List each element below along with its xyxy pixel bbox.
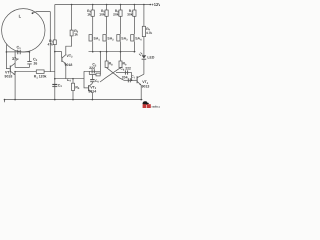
node R5 top xyxy=(72,78,74,80)
wire R10 to LED xyxy=(143,37,145,56)
wire coil left end down to base node xyxy=(6,45,9,69)
wire parallel resistor row xyxy=(89,71,100,74)
watermark red text xyxy=(143,104,165,108)
+12V top rail xyxy=(55,4,151,6)
capacitor C3 electrolytic xyxy=(52,84,57,87)
LED diode xyxy=(139,53,146,60)
wire C6 row xyxy=(116,72,132,74)
svg-text:9014: 9014 xyxy=(88,89,96,93)
svg-text:C7: C7 xyxy=(131,75,135,80)
switch column 3: wire, resistor, switch SA3 xyxy=(117,5,122,52)
svg-text:9018: 9018 xyxy=(65,63,73,67)
capacitor C2 xyxy=(27,62,31,64)
node R1 left xyxy=(14,71,16,73)
svg-text:20k: 20k xyxy=(113,12,119,16)
wire C7 row xyxy=(124,79,137,81)
node junction coil-C1 xyxy=(6,51,8,53)
svg-text:222: 222 xyxy=(89,66,95,70)
svg-text:radio.com: radio.com xyxy=(152,106,160,109)
transistor VT4 xyxy=(137,74,144,85)
resistor R5 xyxy=(72,79,75,100)
node coil tap dot xyxy=(32,12,34,14)
switch column 4: wire, resistor, switch SA4 xyxy=(131,5,136,52)
svg-text:26: 26 xyxy=(34,61,38,65)
wire down to VT3 base xyxy=(84,71,88,88)
cross coupling wire right-to-left xyxy=(100,68,121,82)
svg-text:1k: 1k xyxy=(74,33,78,37)
resistor R9 column xyxy=(119,52,122,68)
watermark logo blob xyxy=(143,101,149,105)
transistor VT3 xyxy=(89,83,93,93)
resistor small horizontal xyxy=(96,73,100,76)
transistor VT1 xyxy=(10,63,15,75)
cross coupling wire left-to-right xyxy=(107,68,124,81)
node C6/C7 xyxy=(131,80,133,82)
svg-text:C4: C4 xyxy=(67,78,72,83)
wire VT2 collector to R3 xyxy=(66,36,72,55)
svg-text:9013: 9013 xyxy=(142,84,150,88)
capacitor C6 xyxy=(125,70,127,74)
svg-text:1k: 1k xyxy=(87,12,91,16)
wire vertical from coil tap down xyxy=(49,12,51,72)
svg-text:30k: 30k xyxy=(127,12,133,16)
svg-text:204: 204 xyxy=(122,76,128,80)
wire R3 top to +12V rail xyxy=(71,5,73,31)
resistor R8 column xyxy=(105,52,108,68)
wire coil top tap to vertical xyxy=(33,12,51,14)
svg-text:+12V: +12V xyxy=(151,2,160,7)
svg-text:R5: R5 xyxy=(75,85,80,90)
wire tank top to C1 xyxy=(6,51,29,53)
capacitor C6 electrolytic in VT3 collector xyxy=(90,75,94,84)
svg-text:C1: C1 xyxy=(17,45,22,50)
node junction bias xyxy=(54,51,56,53)
wire C2 bottom to VT1 collector node xyxy=(15,66,29,68)
bus wire below switches xyxy=(89,51,136,53)
wire to VT2 base xyxy=(55,52,62,58)
svg-text:SA2: SA2 xyxy=(107,37,114,42)
wire VT4 collector up to LED xyxy=(143,60,145,75)
svg-text:10k: 10k xyxy=(99,12,105,16)
capacitor C1 xyxy=(18,50,20,55)
svg-text:VT2: VT2 xyxy=(67,54,74,59)
node C3 top xyxy=(54,78,56,80)
wire coil tap to VT1 collector xyxy=(14,51,16,68)
wire VT1 emitter down to ground rail xyxy=(14,72,16,100)
svg-text:SA1: SA1 xyxy=(94,37,101,42)
wire C6 down to base row xyxy=(131,73,133,81)
capacitor C5 xyxy=(92,69,94,73)
switch column 1: wire, resistor R4, switch SA1 xyxy=(89,5,94,52)
resistor R3 xyxy=(70,30,73,36)
bus junction dots xyxy=(92,51,135,53)
ground rail dots xyxy=(4,99,142,101)
svg-text:9018: 9018 xyxy=(5,75,13,79)
node junction C1-C2 xyxy=(29,51,31,53)
wire bus down to C5 row xyxy=(99,52,101,75)
resistor R1 xyxy=(36,70,44,74)
svg-text:37µ: 37µ xyxy=(12,57,18,61)
wire VT2 emitter down xyxy=(65,64,67,79)
svg-text:4.7k: 4.7k xyxy=(146,31,152,35)
wire +12V column x54.8 full xyxy=(54,5,56,100)
svg-text:SA3: SA3 xyxy=(121,37,128,42)
coil L (loop antenna circle) xyxy=(2,9,45,52)
wire emitter node row xyxy=(55,78,84,80)
ground rail bottom xyxy=(5,100,143,103)
svg-text:L: L xyxy=(19,13,22,18)
wire R1 row xyxy=(15,71,55,73)
svg-text:R1 120k: R1 120k xyxy=(34,75,47,80)
wire C5 row xyxy=(84,70,100,72)
wire VT4 emitter down xyxy=(140,85,142,99)
text labels xyxy=(5,2,162,93)
wire VT3 emitter to ground xyxy=(91,93,93,100)
svg-text:LED: LED xyxy=(147,56,154,60)
transistor VT2 xyxy=(62,55,66,64)
svg-text:SA4: SA4 xyxy=(135,37,142,42)
wire C2 vertical drop xyxy=(29,52,31,68)
resistor R2 xyxy=(53,40,56,45)
capacitor C7 xyxy=(128,78,130,82)
svg-text:C6: C6 xyxy=(95,79,99,84)
svg-text:R9: R9 xyxy=(123,62,128,67)
svg-text:C3: C3 xyxy=(58,84,63,89)
svg-text:C6 222: C6 222 xyxy=(120,67,131,72)
switch column 2: wire, resistor, switch SA2 xyxy=(103,5,108,52)
resistor R10 xyxy=(142,5,145,37)
svg-text:47k: 47k xyxy=(47,42,53,46)
rail junction dots xyxy=(71,4,151,6)
svg-text:R8: R8 xyxy=(109,62,114,67)
